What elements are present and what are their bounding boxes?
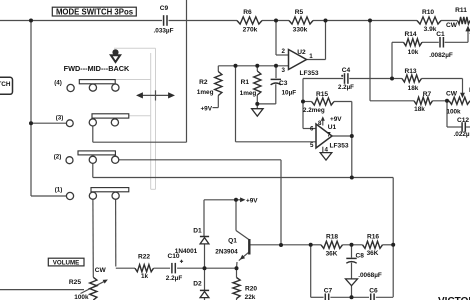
- svg-text:.0068µF: .0068µF: [358, 272, 382, 279]
- svg-text:U2: U2: [297, 49, 306, 56]
- svg-text:R20: R20: [245, 286, 257, 293]
- svg-text:1k: 1k: [141, 273, 149, 280]
- svg-text:7: 7: [327, 131, 331, 138]
- svg-text:VICTORY: VICTORY: [438, 296, 470, 300]
- svg-text:C9: C9: [160, 5, 169, 12]
- svg-text:.022µF: .022µF: [453, 131, 470, 138]
- svg-text:C7: C7: [324, 288, 333, 295]
- svg-text:10µF: 10µF: [282, 90, 297, 97]
- svg-text:.0082µF: .0082µF: [429, 52, 453, 59]
- svg-text:5: 5: [310, 142, 314, 149]
- svg-text:6: 6: [310, 125, 314, 132]
- svg-text:R18: R18: [326, 233, 338, 240]
- svg-text:U1: U1: [328, 124, 337, 131]
- svg-text:36K: 36K: [367, 250, 379, 257]
- svg-text:+9V: +9V: [246, 198, 258, 205]
- svg-text:270k: 270k: [243, 27, 258, 34]
- svg-text:1meg: 1meg: [197, 89, 214, 96]
- svg-text:(2): (2): [54, 154, 62, 161]
- svg-text:+9V: +9V: [200, 105, 212, 112]
- svg-text:R7: R7: [423, 91, 432, 98]
- svg-text:R2: R2: [199, 79, 208, 86]
- svg-text:2: 2: [282, 48, 286, 55]
- svg-text:R5: R5: [295, 9, 304, 16]
- svg-text:CW: CW: [446, 91, 458, 98]
- svg-text:LF353: LF353: [299, 70, 318, 77]
- svg-text:C1: C1: [436, 31, 445, 38]
- svg-text:.033µF: .033µF: [153, 28, 173, 35]
- svg-text:2.2µF: 2.2µF: [338, 84, 354, 91]
- svg-text:C12: C12: [457, 117, 469, 124]
- svg-text:R25: R25: [69, 279, 81, 286]
- svg-text:R10: R10: [422, 9, 434, 16]
- svg-text:VOLUME: VOLUME: [53, 259, 79, 266]
- svg-text:22k: 22k: [245, 294, 256, 300]
- svg-text:C8: C8: [356, 253, 365, 260]
- svg-text:R16: R16: [367, 233, 379, 240]
- svg-text:2N3904: 2N3904: [215, 248, 238, 255]
- svg-text:2.2meg: 2.2meg: [303, 107, 325, 114]
- svg-text:3.9k: 3.9k: [424, 26, 437, 33]
- svg-text:C3: C3: [279, 80, 288, 87]
- svg-text:CW: CW: [446, 22, 458, 29]
- svg-text:(3): (3): [56, 114, 64, 121]
- svg-text:R1: R1: [241, 79, 250, 86]
- svg-text:CW: CW: [95, 267, 107, 274]
- svg-text:2.2µF: 2.2µF: [166, 275, 183, 282]
- svg-text:D1: D1: [193, 227, 202, 234]
- svg-text:R13: R13: [404, 68, 416, 75]
- svg-text:1meg: 1meg: [240, 90, 257, 97]
- svg-text:100k: 100k: [446, 108, 461, 115]
- svg-text:18k: 18k: [414, 106, 425, 113]
- svg-text:18k: 18k: [408, 85, 419, 92]
- svg-text:3: 3: [282, 67, 286, 74]
- svg-text:10k: 10k: [408, 49, 419, 56]
- svg-text:100k: 100k: [74, 294, 89, 300]
- svg-text:C4: C4: [342, 67, 351, 74]
- svg-text:(4): (4): [54, 79, 62, 86]
- svg-text:4: 4: [325, 147, 329, 154]
- svg-text:Q1: Q1: [228, 238, 237, 245]
- svg-text:TCH: TCH: [0, 81, 11, 88]
- svg-text:LF353: LF353: [329, 143, 348, 150]
- svg-text:FWD---MID---BACK: FWD---MID---BACK: [64, 64, 130, 73]
- svg-text:C10: C10: [167, 253, 179, 260]
- svg-text:R22: R22: [138, 253, 150, 260]
- svg-text:1: 1: [309, 53, 313, 60]
- svg-text:R15: R15: [316, 91, 328, 98]
- svg-text:(1): (1): [55, 186, 63, 193]
- svg-text:+9V: +9V: [330, 116, 342, 123]
- svg-text:36K: 36K: [326, 250, 338, 257]
- svg-text:8: 8: [318, 120, 322, 127]
- svg-text:R11: R11: [455, 7, 467, 14]
- svg-text:R6: R6: [243, 9, 252, 16]
- svg-text:D2: D2: [193, 281, 202, 288]
- svg-text:330k: 330k: [293, 27, 308, 34]
- svg-text:MODE SWITCH 3Pos: MODE SWITCH 3Pos: [56, 8, 134, 17]
- svg-text:R14: R14: [404, 31, 416, 38]
- svg-text:C6: C6: [369, 288, 378, 295]
